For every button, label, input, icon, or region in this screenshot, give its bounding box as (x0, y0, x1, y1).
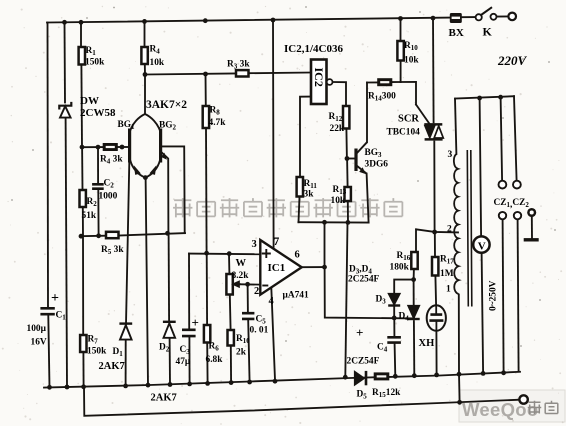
svg-text:IC1: IC1 (268, 262, 286, 274)
wire C2 top stem (97, 147, 99, 183)
wire R13 to node222 (347, 201, 349, 222)
svg-text:2k: 2k (236, 348, 247, 358)
wire pin3 input row (C3/R8/W to IC1+) (189, 253, 260, 256)
resistor R10 10k (397, 41, 403, 61)
resistor R4 10k (141, 47, 147, 64)
svg-text:V: V (478, 240, 486, 252)
wire R11 to node222 (299, 197, 300, 223)
svg-text:10k: 10k (150, 58, 165, 68)
wire R4b to BG1 base (117, 146, 129, 148)
capacitor C3 47u plates (182, 330, 196, 336)
svg-text:XH: XH (419, 338, 435, 349)
wire node236-to-R7 (82, 236, 84, 335)
transistor BG3 emitter arrow (359, 167, 366, 174)
svg-text:2: 2 (254, 286, 259, 297)
transistor BG2 outer emitter arrow (161, 153, 167, 160)
wire R2-to-node236 (82, 207, 84, 236)
transistor BG3 collector line (357, 142, 368, 153)
svg-text:2CZ54F: 2CZ54F (347, 357, 380, 367)
transistor BG1 base bar (128, 129, 131, 163)
svg-text:47μ: 47μ (176, 357, 191, 367)
resistor R9 2k (228, 330, 234, 346)
wire top positive rail (47, 18, 450, 23)
svg-text:150k: 150k (87, 347, 107, 357)
ground terminal circle (528, 209, 535, 216)
wire node279 left branch to D3 (394, 280, 413, 294)
svg-text:DW: DW (80, 95, 99, 107)
wire C2 bottom stem (97, 190, 99, 236)
transistor BG3 emitter line (357, 166, 367, 174)
diode D5 2CZ54F (in rail, pointing right) (355, 371, 366, 385)
wire R16 to node279 (413, 269, 415, 280)
svg-text:R14300: R14300 (368, 92, 396, 103)
wire CZ2 upper column (514, 96, 517, 180)
resistor R14 300 (378, 79, 392, 85)
wire output branch down and right (to D3/D4 cathodes) (325, 267, 414, 318)
svg-text:R1512k: R1512k (372, 388, 401, 399)
wire bottom negative rail (44, 372, 520, 388)
wire R3 to IC2 input (249, 72, 312, 75)
svg-text:4: 4 (269, 296, 275, 307)
zener DW 2CW58 (59, 102, 71, 118)
wire BG3 base node to R13 (346, 159, 349, 188)
wire secondary top row (455, 96, 514, 98)
svg-text:22k: 22k (330, 124, 345, 134)
capacitor C1 plates (40, 308, 54, 314)
diode D4 2C254F (408, 306, 420, 319)
wire fuse-to-switch (462, 16, 476, 18)
svg-text:6: 6 (295, 250, 300, 261)
wire D3 to node318 (393, 305, 395, 318)
resistor R15 12k (375, 373, 389, 379)
capacitor C5 0.01 plates (242, 313, 254, 319)
wire D4 to rail (413, 321, 415, 375)
wire CZ2 lower column (518, 220, 519, 372)
wire R8-to-node253 (205, 128, 208, 253)
wire node74-to-R8 (205, 74, 207, 106)
wire IC1 pin4 to rail (271, 288, 275, 380)
wire C3 column (188, 254, 190, 328)
svg-text:10k: 10k (331, 196, 346, 206)
socket CZ2 lower pin (514, 212, 521, 219)
ground bar (524, 238, 539, 241)
IC2 output bubble (327, 79, 333, 85)
socket CZ2 upper pin (513, 181, 521, 189)
wire BG3 base stub (347, 158, 355, 160)
resistor R16 180k (411, 252, 417, 269)
wire R10 node to gate corner (401, 82, 416, 105)
wire R5 row left (81, 235, 106, 238)
wire left rail lower (C1 to bottom rail) (48, 316, 49, 387)
wire CZ1 upper column (501, 97, 503, 180)
diode D3 2C254F (388, 294, 400, 306)
wire BG1 base-bar down to D1 (126, 163, 129, 325)
svg-text:3DG6: 3DG6 (365, 160, 389, 170)
wire ground stem (531, 216, 533, 239)
svg-text:+: + (51, 291, 59, 306)
svg-text:0~250V: 0~250V (489, 280, 499, 311)
svg-text:2: 2 (447, 225, 452, 235)
svg-text:W: W (236, 258, 247, 269)
resistor R12 22k (343, 106, 349, 129)
wire C5 to rail (248, 321, 249, 383)
op-amp IC1 minus mark (262, 285, 268, 287)
wire node74 to R3 (145, 73, 236, 74)
wire DW column lower (66, 118, 67, 388)
transistor BG2 base bar (159, 129, 162, 163)
svg-text:180k: 180k (390, 263, 410, 273)
resistor R4b 3k (104, 144, 118, 150)
svg-text:3k: 3k (304, 190, 315, 200)
svg-text:51k: 51k (82, 211, 97, 221)
resistor R6 6.8k (204, 325, 210, 343)
wire R10 to node82 (400, 61, 402, 83)
watermark line 杭州将睿科技有限公司 (173, 198, 192, 217)
wire SCR gate diagonal (416, 105, 430, 125)
transistor pair emitter arrows (134, 165, 141, 175)
svg-text:+: + (192, 315, 199, 330)
wire R12 to BG3 base node (345, 129, 348, 159)
svg-text:R3 3k: R3 3k (227, 60, 250, 71)
wire IC1 pin6 output (302, 266, 325, 268)
potentiometer W wiper arrow (233, 282, 241, 287)
svg-text:0. 01: 0. 01 (250, 326, 269, 336)
resistor R17 1M (432, 257, 438, 276)
IC2 gate box (311, 60, 327, 105)
svg-text:1M: 1M (440, 269, 454, 279)
wire V-meter upper column (480, 98, 482, 237)
wire pair-bottom-to-rail (146, 178, 148, 385)
transistor pair collector lens (130, 114, 160, 178)
resistor R5 3k (106, 232, 119, 238)
wire W top stem (228, 254, 230, 274)
svg-text:220V: 220V (497, 53, 528, 68)
wire R4-to-node74 (144, 64, 146, 75)
wire node74-to-pair-top (144, 75, 146, 115)
capacitor C4 plates (387, 337, 401, 342)
wire R9 to rail (230, 346, 232, 384)
wire BG3 emitter down to node222 (367, 174, 369, 223)
wire DW column upper (64, 23, 67, 103)
wire left rail upper (to C1) (47, 23, 50, 307)
svg-text:R4 3k: R4 3k (100, 155, 123, 166)
wire winding-1 to rail (458, 295, 460, 374)
svg-text:4.7k: 4.7k (209, 118, 227, 128)
wire node253-to-R6 (206, 253, 208, 325)
resistor R13 10k (345, 187, 351, 201)
wire C3 to rail (188, 338, 190, 385)
watermark chars 维库 (528, 401, 542, 415)
wire C4 to rail (394, 345, 397, 377)
wire R1 column (80, 22, 82, 47)
svg-text:+: + (356, 325, 363, 340)
svg-text:1000: 1000 (99, 192, 118, 202)
wire XH to rail (435, 331, 437, 375)
svg-text:3: 3 (252, 239, 257, 250)
resistor R8 4.7k (203, 106, 209, 128)
SCR TBC104 symbol (424, 124, 443, 139)
svg-text:μA741: μA741 (283, 291, 309, 301)
capacitor C2 1000 plates (92, 184, 104, 188)
wire CZ1 lower column (503, 220, 504, 372)
svg-text:16V: 16V (31, 338, 47, 348)
socket CZ1 lower pin (499, 212, 506, 219)
wire node147-to-R2 (81, 147, 83, 190)
resistor R7 150k (80, 335, 86, 352)
svg-text:IC2: IC2 (312, 68, 326, 87)
svg-text:2CW58: 2CW58 (80, 107, 116, 119)
svg-text:10k: 10k (404, 56, 419, 66)
wire switch-to-terminal (497, 15, 509, 17)
svg-text:BX: BX (449, 27, 464, 39)
wire C5 stem upper (247, 284, 249, 311)
wire R14 to R10 node (392, 81, 401, 83)
wire node279 down to D4 (413, 280, 415, 305)
wire node222 branch down (to rail) (345, 223, 347, 378)
svg-text:150k: 150k (85, 58, 105, 68)
op-amp IC1 plus mark (262, 249, 271, 258)
wire rail to SCR anode (432, 18, 435, 123)
diode D1 2AK7 (119, 324, 132, 340)
wire IC1 pin7 supply column (272, 21, 275, 247)
fuse BX (450, 13, 462, 23)
wire node318 to C4 (393, 318, 395, 336)
wire W to R9 (229, 295, 232, 331)
wire IC2 output corner to R12 (333, 82, 346, 106)
diode D2 2AK7 (163, 322, 176, 338)
transformer winding (autotransformer coil) (454, 154, 459, 294)
neon lamp XH (427, 305, 446, 331)
terminal (mains input top) (508, 13, 516, 21)
wire R5 row right (119, 233, 186, 235)
wire D2 node down to D2 (168, 233, 171, 321)
svg-text:SCR: SCR (398, 114, 419, 125)
wire rail to R10 (400, 18, 402, 41)
wire collector to R14 (367, 81, 378, 83)
svg-text:100μ: 100μ (27, 324, 47, 334)
svg-text:R5 3k: R5 3k (101, 245, 124, 256)
switch K contacts (476, 14, 482, 20)
wire top row to winding-3 (455, 99, 456, 154)
potentiometer W 8.2k body (226, 274, 232, 295)
wire R7-to-rail (82, 352, 84, 387)
wire node147 to R4b (82, 146, 104, 148)
resistor R3 3k (236, 70, 249, 76)
wire D2 to rail (169, 339, 171, 385)
svg-text:6.8k: 6.8k (206, 355, 224, 365)
svg-text:7: 7 (274, 236, 280, 248)
wire R6-to-rail (206, 343, 208, 384)
svg-text:2AK7: 2AK7 (151, 393, 177, 404)
svg-text:IC2,1/4C036: IC2,1/4C036 (284, 43, 343, 55)
watermark box weeqoo (459, 390, 565, 422)
wire R1-to-node147 (80, 65, 83, 148)
svg-text:2C254F: 2C254F (348, 275, 380, 285)
wire stub winding-1 to bottom loop (458, 373, 461, 402)
socket CZ1 upper pin (499, 181, 507, 189)
wire rail-to-R4 (144, 21, 146, 47)
resistor R2 51k (80, 190, 86, 207)
wire BG2 emitter down to D2 node (162, 153, 169, 234)
svg-text:K: K (483, 25, 493, 39)
wire BG2 base to corner (162, 146, 185, 233)
wire bottom loop (output line to terminal) (84, 387, 519, 416)
wire IC2 lower input to R11 (300, 97, 311, 177)
svg-text:TBC104: TBC104 (387, 128, 421, 138)
wire wiper row to IC1 inverting input (236, 283, 261, 285)
wire node222 row (298, 221, 368, 223)
wire output branch up to node222 (324, 222, 326, 267)
voltmeter V (473, 236, 489, 252)
wire tap2 row (R16 corner to winding) (416, 229, 458, 252)
svg-text:2AK7: 2AK7 (99, 361, 125, 372)
wire SCR cathode to tap2 node (433, 142, 435, 233)
terminal (mains input bottom) (519, 395, 527, 403)
transformer core lines (467, 150, 472, 307)
svg-text:1: 1 (446, 285, 451, 295)
resistor R11 3k (297, 177, 303, 197)
transistor pair emitter lines (130, 161, 145, 178)
transistor BG3 base bar (354, 149, 357, 172)
wire R17 to XH (434, 276, 437, 306)
wire V-meter lower column (482, 253, 484, 373)
wire D1 to rail (125, 340, 127, 386)
resistor R1 150k (79, 47, 85, 65)
switch K blade (481, 7, 492, 15)
svg-text:3: 3 (448, 150, 453, 160)
svg-text:8.2k: 8.2k (232, 271, 250, 281)
op-amp IC1 triangle (260, 240, 301, 295)
wire BG3 collector column (366, 83, 368, 143)
wire tap2 node to R17 (434, 232, 436, 257)
svg-text:3AK7×2: 3AK7×2 (146, 99, 187, 111)
